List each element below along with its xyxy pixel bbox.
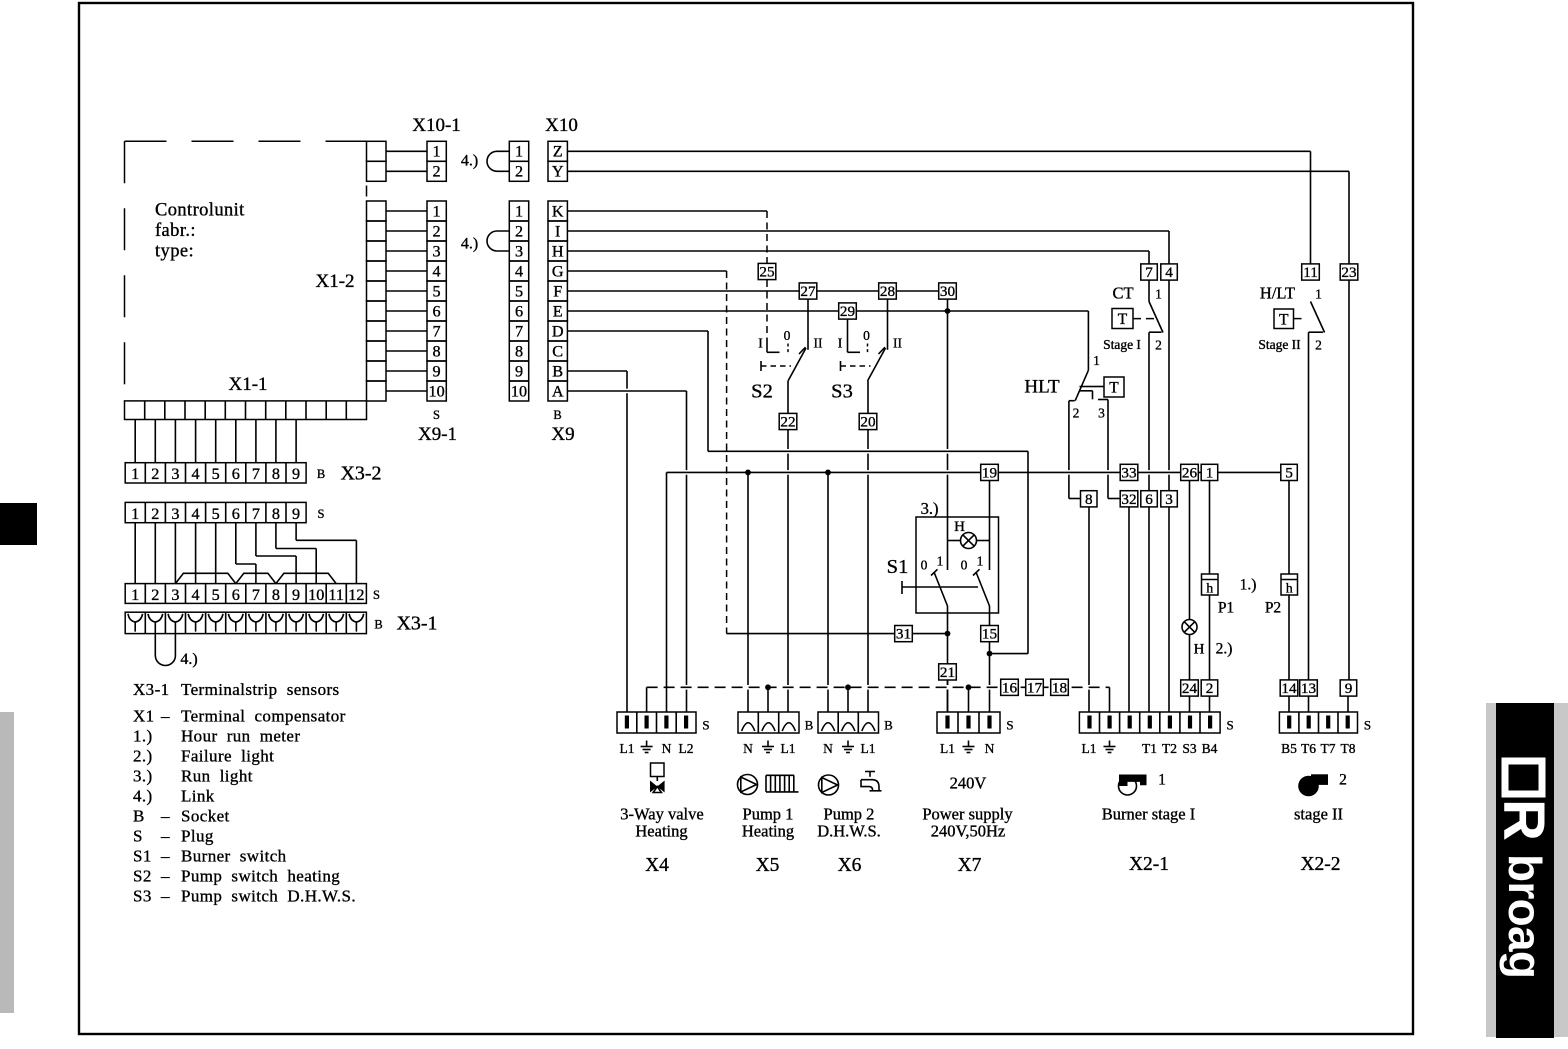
- svg-text:11: 11: [328, 586, 344, 604]
- svg-text:4.): 4.): [180, 651, 197, 668]
- svg-text:S2: S2: [133, 866, 152, 885]
- svg-text:6: 6: [232, 505, 240, 523]
- svg-text:C: C: [552, 342, 563, 360]
- svg-text:Heating: Heating: [742, 822, 794, 841]
- svg-text:Run light: Run light: [181, 766, 253, 785]
- svg-text:16: 16: [1002, 679, 1018, 696]
- svg-text:22: 22: [780, 414, 795, 431]
- svg-text:29: 29: [840, 303, 855, 320]
- svg-text:4: 4: [1165, 264, 1173, 281]
- svg-text:F: F: [553, 282, 562, 300]
- svg-text:N: N: [743, 741, 753, 756]
- svg-text:Plug: Plug: [181, 826, 214, 845]
- svg-text:12: 12: [348, 586, 364, 604]
- svg-text:3.): 3.): [133, 766, 153, 785]
- svg-text:23: 23: [1341, 264, 1356, 281]
- svg-text:0: 0: [863, 328, 870, 343]
- svg-text:8: 8: [433, 342, 441, 360]
- svg-text:I: I: [758, 336, 763, 351]
- svg-text:L2: L2: [679, 741, 694, 756]
- svg-text:S1: S1: [887, 556, 909, 578]
- svg-text:Pump switch heating: Pump switch heating: [181, 866, 340, 885]
- svg-text:X2-1: X2-1: [1129, 854, 1169, 875]
- svg-text:3: 3: [1165, 491, 1173, 508]
- svg-text:T: T: [1118, 311, 1128, 328]
- svg-text:Terminalstrip sensors: Terminalstrip sensors: [181, 680, 340, 699]
- svg-text:X1-1: X1-1: [228, 374, 267, 395]
- svg-text:5: 5: [212, 586, 220, 604]
- svg-text:1: 1: [131, 505, 139, 523]
- svg-text:2: 2: [433, 222, 441, 240]
- svg-text:2: 2: [1073, 406, 1080, 421]
- svg-text:7: 7: [252, 505, 260, 523]
- svg-text:D.H.W.S.: D.H.W.S.: [817, 822, 881, 841]
- svg-text:–: –: [160, 806, 170, 825]
- svg-text:Burner stage I: Burner stage I: [1102, 805, 1195, 824]
- svg-text:1: 1: [433, 202, 441, 220]
- svg-text:2.): 2.): [133, 746, 153, 765]
- svg-text:4: 4: [192, 586, 200, 604]
- svg-text:4: 4: [192, 465, 200, 483]
- svg-text:B: B: [805, 718, 814, 733]
- svg-text:3: 3: [171, 586, 179, 604]
- svg-text:X3-1: X3-1: [133, 680, 170, 699]
- svg-text:X2-2: X2-2: [1300, 854, 1340, 875]
- svg-text:5: 5: [1285, 465, 1293, 482]
- svg-text:P2: P2: [1265, 600, 1281, 617]
- svg-text:8: 8: [515, 342, 523, 360]
- svg-text:L1: L1: [1082, 741, 1097, 756]
- svg-text:h: h: [1206, 581, 1213, 596]
- svg-text:–: –: [160, 826, 170, 845]
- svg-text:2: 2: [1315, 338, 1322, 353]
- svg-text:3: 3: [171, 505, 179, 523]
- svg-text:HLT: HLT: [1024, 377, 1060, 398]
- svg-text:7: 7: [252, 586, 260, 604]
- svg-text:Controlunit: Controlunit: [155, 201, 245, 221]
- svg-text:4: 4: [433, 262, 441, 280]
- svg-text:D: D: [552, 322, 564, 340]
- svg-text:7: 7: [433, 322, 441, 340]
- svg-text:B5: B5: [1281, 741, 1297, 756]
- svg-text:H: H: [552, 242, 564, 260]
- svg-text:II: II: [814, 336, 823, 351]
- svg-text:S3: S3: [133, 886, 152, 905]
- svg-text:B: B: [553, 408, 561, 422]
- svg-text:X9-1: X9-1: [418, 424, 457, 445]
- svg-text:240V,50Hz: 240V,50Hz: [931, 822, 1005, 841]
- svg-text:N: N: [823, 741, 833, 756]
- svg-text:X1-2: X1-2: [315, 271, 354, 292]
- svg-text:2: 2: [515, 222, 523, 240]
- svg-text:G: G: [552, 262, 564, 280]
- svg-text:10: 10: [308, 586, 324, 604]
- svg-text:1: 1: [937, 554, 944, 569]
- svg-text:17: 17: [1027, 679, 1043, 696]
- svg-text:2: 2: [433, 163, 441, 181]
- svg-text:2: 2: [1339, 772, 1347, 789]
- svg-text:24: 24: [1182, 680, 1198, 697]
- svg-text:–: –: [160, 706, 170, 725]
- svg-text:5: 5: [515, 282, 523, 300]
- svg-text:T2: T2: [1162, 741, 1177, 756]
- svg-text:Z: Z: [553, 143, 563, 161]
- svg-text:X3-2: X3-2: [340, 463, 381, 485]
- svg-text:S2: S2: [751, 381, 773, 403]
- svg-text:19: 19: [982, 465, 997, 482]
- svg-text:X9: X9: [551, 424, 574, 445]
- svg-text:5: 5: [212, 465, 220, 483]
- svg-text:X6: X6: [838, 855, 862, 876]
- svg-text:3.): 3.): [921, 499, 939, 518]
- svg-text:2: 2: [151, 586, 159, 604]
- svg-text:9: 9: [515, 362, 523, 380]
- svg-text:25: 25: [759, 264, 774, 281]
- svg-text:20: 20: [860, 414, 876, 431]
- svg-text:S1: S1: [133, 846, 152, 865]
- svg-text:X5: X5: [756, 855, 780, 876]
- svg-text:13: 13: [1301, 680, 1316, 697]
- svg-text:1: 1: [977, 554, 984, 569]
- svg-text:2: 2: [151, 465, 159, 483]
- svg-text:28: 28: [880, 283, 896, 300]
- svg-text:S: S: [1226, 718, 1233, 733]
- svg-text:7: 7: [515, 322, 523, 340]
- svg-text:B: B: [133, 806, 145, 825]
- svg-text:B: B: [374, 618, 382, 632]
- svg-text:3: 3: [171, 465, 179, 483]
- svg-text:K: K: [552, 202, 564, 220]
- svg-text:9: 9: [433, 362, 441, 380]
- svg-text:1: 1: [1158, 772, 1166, 789]
- svg-text:type:: type:: [155, 242, 194, 262]
- svg-text:h: h: [1286, 581, 1293, 596]
- svg-text:6: 6: [433, 302, 441, 320]
- svg-text:E: E: [553, 302, 563, 320]
- svg-text:B4: B4: [1202, 741, 1218, 756]
- svg-text:9: 9: [292, 465, 300, 483]
- svg-text:4: 4: [515, 262, 523, 280]
- svg-text:21: 21: [940, 664, 955, 681]
- svg-text:2.): 2.): [1216, 641, 1233, 658]
- svg-text:T6: T6: [1301, 741, 1316, 756]
- svg-text:26: 26: [1182, 465, 1198, 482]
- svg-text:1: 1: [1093, 353, 1100, 368]
- svg-text:–: –: [160, 846, 170, 865]
- svg-text:X10: X10: [545, 115, 578, 136]
- svg-text:I: I: [555, 222, 560, 240]
- svg-text:H: H: [1194, 642, 1205, 658]
- svg-text:N: N: [985, 741, 995, 756]
- svg-text:fabr.:: fabr.:: [155, 221, 196, 241]
- svg-text:T: T: [1109, 380, 1119, 397]
- svg-text:5: 5: [212, 505, 220, 523]
- svg-text:S: S: [133, 826, 143, 845]
- svg-text:0: 0: [921, 558, 928, 573]
- svg-text:2: 2: [1155, 338, 1162, 353]
- svg-text:6: 6: [515, 302, 523, 320]
- svg-text:5: 5: [433, 282, 441, 300]
- svg-text:–: –: [160, 866, 170, 885]
- svg-text:Stage I: Stage I: [1103, 337, 1141, 352]
- svg-text:11: 11: [1303, 264, 1318, 281]
- svg-text:L1: L1: [620, 741, 635, 756]
- svg-text:15: 15: [982, 626, 997, 643]
- svg-text:I: I: [838, 336, 843, 351]
- svg-text:Link: Link: [181, 786, 215, 805]
- svg-text:0: 0: [784, 328, 791, 343]
- svg-text:CT: CT: [1112, 284, 1133, 303]
- svg-text:27: 27: [800, 283, 816, 300]
- svg-text:31: 31: [896, 626, 911, 643]
- svg-text:9: 9: [1345, 680, 1353, 697]
- svg-text:14: 14: [1281, 680, 1297, 697]
- svg-text:30: 30: [940, 283, 956, 300]
- svg-text:N: N: [662, 741, 672, 756]
- svg-text:II: II: [893, 336, 902, 351]
- svg-text:X10-1: X10-1: [412, 115, 461, 136]
- svg-text:7: 7: [1145, 264, 1153, 281]
- svg-text:T7: T7: [1321, 741, 1336, 756]
- svg-text:6: 6: [232, 586, 240, 604]
- svg-text:1: 1: [1206, 465, 1214, 482]
- svg-text:–: –: [160, 886, 170, 905]
- svg-text:7: 7: [252, 465, 260, 483]
- svg-text:L1: L1: [940, 741, 955, 756]
- svg-text:X4: X4: [645, 855, 669, 876]
- svg-text:1: 1: [433, 143, 441, 161]
- svg-text:1.): 1.): [133, 726, 153, 745]
- svg-text:0: 0: [961, 558, 968, 573]
- svg-text:18: 18: [1052, 679, 1068, 696]
- svg-text:X1: X1: [133, 706, 155, 725]
- svg-text:S: S: [318, 507, 325, 521]
- svg-text:Heating: Heating: [635, 822, 687, 841]
- svg-text:B: B: [884, 718, 893, 733]
- svg-text:stage II: stage II: [1294, 805, 1343, 824]
- svg-text:Failure light: Failure light: [181, 746, 274, 765]
- svg-text:T: T: [1279, 311, 1289, 328]
- svg-text:4.): 4.): [133, 786, 153, 805]
- svg-text:broag: broag: [1499, 854, 1551, 979]
- svg-text:10: 10: [511, 382, 527, 400]
- svg-text:Burner switch: Burner switch: [181, 846, 287, 865]
- svg-text:S3: S3: [831, 381, 853, 403]
- svg-text:1.): 1.): [1240, 577, 1257, 594]
- svg-text:8: 8: [272, 465, 280, 483]
- svg-text:X3-1: X3-1: [396, 613, 437, 635]
- svg-text:2: 2: [515, 163, 523, 181]
- svg-text:10: 10: [429, 382, 445, 400]
- svg-text:Socket: Socket: [181, 806, 230, 825]
- svg-text:Y: Y: [552, 163, 564, 181]
- svg-text:6: 6: [232, 465, 240, 483]
- svg-text:1: 1: [1315, 287, 1322, 302]
- svg-text:R: R: [1491, 799, 1556, 841]
- svg-text:2: 2: [1206, 680, 1214, 697]
- svg-text:8: 8: [272, 586, 280, 604]
- svg-text:3: 3: [1098, 406, 1105, 421]
- svg-text:1: 1: [515, 202, 523, 220]
- svg-text:S3: S3: [1182, 741, 1197, 756]
- svg-text:B: B: [552, 362, 563, 380]
- svg-text:6: 6: [1145, 491, 1153, 508]
- svg-text:S: S: [1364, 718, 1371, 733]
- svg-text:32: 32: [1121, 491, 1136, 508]
- svg-text:H: H: [954, 519, 965, 535]
- svg-text:L1: L1: [781, 741, 796, 756]
- svg-text:H/LT: H/LT: [1260, 284, 1295, 303]
- svg-text:P1: P1: [1218, 600, 1234, 617]
- svg-text:9: 9: [292, 505, 300, 523]
- svg-text:B: B: [317, 467, 325, 481]
- svg-text:8: 8: [1085, 491, 1093, 508]
- svg-text:S: S: [433, 408, 440, 422]
- svg-text:3: 3: [433, 242, 441, 260]
- svg-text:L1: L1: [861, 741, 876, 756]
- svg-text:1: 1: [1155, 287, 1162, 302]
- svg-text:8: 8: [272, 505, 280, 523]
- svg-text:S: S: [1006, 718, 1013, 733]
- svg-text:S: S: [702, 718, 709, 733]
- svg-text:2: 2: [151, 505, 159, 523]
- svg-text:Stage II: Stage II: [1258, 337, 1301, 352]
- svg-text:Pump switch D.H.W.S.: Pump switch D.H.W.S.: [181, 886, 356, 905]
- svg-text:33: 33: [1121, 465, 1136, 482]
- svg-text:1: 1: [131, 586, 139, 604]
- svg-text:T1: T1: [1142, 741, 1157, 756]
- svg-text:X7: X7: [958, 855, 982, 876]
- svg-text:Hour run meter: Hour run meter: [181, 726, 300, 745]
- svg-text:Terminal compensator: Terminal compensator: [181, 706, 346, 725]
- svg-text:4: 4: [192, 505, 200, 523]
- svg-text:4.): 4.): [461, 153, 478, 170]
- svg-text:4.): 4.): [461, 236, 478, 253]
- svg-text:T8: T8: [1341, 741, 1356, 756]
- svg-text:S: S: [373, 588, 380, 602]
- svg-text:240V: 240V: [950, 774, 987, 793]
- svg-text:9: 9: [292, 586, 300, 604]
- svg-text:3: 3: [515, 242, 523, 260]
- svg-text:1: 1: [131, 465, 139, 483]
- svg-text:A: A: [552, 382, 564, 400]
- svg-text:1: 1: [515, 143, 523, 161]
